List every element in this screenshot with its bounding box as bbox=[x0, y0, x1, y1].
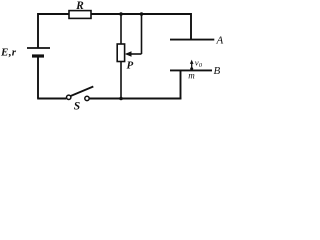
svg-text:R: R bbox=[75, 0, 84, 12]
wire battery to bottom-left corner bbox=[37, 56, 39, 99]
wire potentiometer P to bottom bbox=[120, 62, 122, 100]
velocity arrow v0 bbox=[190, 60, 194, 69]
svg-text:P: P bbox=[127, 60, 134, 72]
plate A bbox=[170, 39, 214, 41]
wire bottom (switch S to right corner) bbox=[90, 98, 182, 100]
particle m bbox=[190, 67, 193, 70]
svg-text:S: S bbox=[74, 101, 80, 112]
svg-text:E,r: E,r bbox=[0, 47, 17, 59]
resistor R bbox=[69, 11, 91, 19]
wire top (resistor R to corner) bbox=[91, 13, 191, 15]
wire wiper branch vertical bbox=[141, 14, 143, 54]
wiper arrow into P bbox=[125, 51, 142, 57]
battery E,r bbox=[27, 48, 50, 56]
svg-text:A: A bbox=[216, 34, 224, 46]
wire top to potentiometer P bbox=[120, 14, 122, 44]
svg-text:B: B bbox=[214, 65, 221, 77]
junction bottom of potentiometer branch bbox=[119, 97, 123, 101]
junction top of potentiometer branch bbox=[119, 12, 123, 16]
wire bottom-right corner up to plate B bbox=[180, 70, 182, 99]
wire bottom-left (corner to switch S) bbox=[37, 98, 66, 100]
wire left vertical (top corner to battery) bbox=[37, 13, 39, 48]
plate B bbox=[170, 69, 212, 71]
wire top-left (battery to resistor R) bbox=[38, 13, 69, 15]
potentiometer P body bbox=[117, 44, 124, 62]
wire top-right corner down to plate A bbox=[190, 13, 192, 40]
svg-text:m: m bbox=[188, 71, 195, 81]
switch S bbox=[67, 87, 94, 101]
junction top of wiper branch bbox=[140, 12, 144, 16]
